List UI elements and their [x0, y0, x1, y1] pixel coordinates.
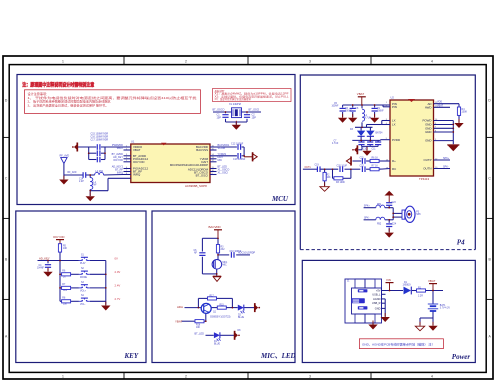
- svg-text:VBAT: VBAT: [117, 147, 124, 150]
- svg-text:10K: 10K: [63, 304, 68, 306]
- svg-text:BACVSS: BACVSS: [196, 148, 208, 152]
- svg-text:PVDD: PVDD: [392, 138, 400, 142]
- svg-text:TP4413: TP4413: [419, 177, 430, 181]
- svg-text:RF_AVD: RF_AVD: [68, 171, 77, 174]
- svg-text:OUT1: OUT1: [305, 167, 312, 169]
- svg-text:C21: C21: [360, 157, 365, 159]
- svg-text:IOCYOD: IOCYOD: [113, 159, 123, 162]
- svg-text:GND: GND: [425, 130, 431, 134]
- svg-text:AWD: AWD: [425, 105, 432, 109]
- svg-text:1: 1: [62, 374, 64, 378]
- svg-text:MIC/PA0/PA3/ADC10/LDRDP: MIC/PA0/PA3/ADC10/LDRDP: [170, 163, 208, 167]
- svg-text:USB_R: USB_R: [372, 301, 381, 305]
- svg-text:YBAT: YBAT: [175, 320, 183, 324]
- svg-text:3: 3: [309, 59, 311, 63]
- svg-text:C12 100NF: C12 100NF: [231, 143, 244, 146]
- svg-text:10K: 10K: [196, 327, 201, 329]
- svg-text:1N5819: 1N5819: [403, 285, 412, 287]
- svg-text:2.7V: 2.7V: [115, 297, 121, 301]
- svg-text:IOCYOD: IOCYOD: [133, 160, 144, 164]
- svg-text:RC: RC: [392, 167, 396, 171]
- svg-text:BLUE: BLUE: [238, 317, 244, 319]
- svg-text:OUTN: OUTN: [423, 167, 431, 171]
- svg-text:Power: Power: [452, 353, 471, 361]
- svg-text:100NF: 100NF: [332, 106, 339, 108]
- svg-text:MIC、LED: MIC、LED: [260, 352, 296, 360]
- svg-text:INRQ: INRQ: [133, 173, 141, 177]
- svg-text:BT_LED: BT_LED: [195, 332, 205, 335]
- svg-text:15P: 15P: [252, 116, 257, 119]
- svg-text:BAT54: BAT54: [376, 131, 384, 134]
- svg-text:BLUE: BLUE: [214, 343, 220, 345]
- svg-text:VOL+: VOL+: [80, 291, 87, 293]
- svg-text:2.2P: 2.2P: [79, 181, 84, 183]
- svg-text:4: 4: [431, 374, 433, 378]
- svg-text:VOL-: VOL-: [80, 304, 86, 306]
- svg-text:LX: LX: [392, 123, 396, 127]
- svg-text:R7 1K: R7 1K: [372, 165, 379, 167]
- svg-text:1K: 1K: [63, 277, 66, 279]
- svg-text:SPK: SPK: [416, 214, 421, 216]
- svg-text:VCOM: VCOM: [218, 147, 226, 150]
- svg-text:GND、AGND在PCB布线时需单点共地（磁珠） 注！: GND、AGND在PCB布线时需单点共地（磁珠） 注！: [362, 341, 435, 346]
- svg-text:104NF: 104NF: [37, 268, 44, 270]
- svg-text:3、 出货前产品需安全日测试，组装会议测试保护 等环节。: 3、 出货前产品需安全日测试，组装会议测试保护 等环节。: [28, 102, 109, 107]
- svg-text:2: 2: [185, 374, 187, 378]
- svg-text:GND: GND: [375, 306, 381, 310]
- svg-text:100NF: 100NF: [377, 110, 384, 112]
- svg-text:FB2: FB2: [377, 224, 382, 226]
- svg-text:X3：温度特性需满足全温范围要求: X3：温度特性需满足全温范围要求: [215, 97, 252, 101]
- svg-text:MIC: MIC: [218, 159, 223, 162]
- svg-text:10K: 10K: [327, 177, 332, 179]
- svg-text:VBAT: VBAT: [133, 148, 141, 152]
- svg-text:KEY: KEY: [124, 352, 139, 360]
- svg-text:4.7UF: 4.7UF: [332, 143, 339, 145]
- svg-text:VDD: VDD: [437, 101, 442, 104]
- svg-text:0V: 0V: [115, 256, 119, 260]
- svg-text:2: 2: [185, 59, 187, 63]
- svg-text:ADA: ADA: [177, 305, 183, 309]
- svg-text:BACVDD: BACVDD: [209, 225, 221, 229]
- svg-text:C17 100NF/X5R: C17 100NF/X5R: [91, 139, 109, 142]
- svg-text:U2: U2: [391, 96, 395, 100]
- svg-text:BT_OSCI: BT_OSCI: [196, 174, 209, 178]
- svg-text:4: 4: [431, 59, 433, 63]
- svg-text:SPK+: SPK+: [443, 157, 450, 160]
- svg-text:P4: P4: [457, 238, 465, 246]
- svg-text:AGND: AGND: [373, 297, 381, 301]
- svg-text:R3 100K: R3 100K: [336, 182, 345, 184]
- svg-text:RF_AVD: RF_AVD: [60, 154, 70, 157]
- svg-text:U1: U1: [131, 140, 135, 144]
- svg-text:L2 2N2: L2 2N2: [96, 171, 104, 173]
- svg-text:100NF: 100NF: [345, 110, 352, 112]
- svg-text:OUTP: OUTP: [423, 158, 431, 162]
- svg-text:FB1: FB1: [377, 204, 382, 206]
- svg-text:2.0V: 2.0V: [115, 270, 121, 274]
- svg-text:SPK-: SPK-: [364, 218, 370, 220]
- svg-text:3: 3: [309, 374, 311, 378]
- svg-text:X1 24MHZ: X1 24MHZ: [229, 103, 241, 106]
- svg-text:R15: R15: [220, 305, 225, 307]
- svg-text:C10: C10: [363, 149, 368, 151]
- svg-text:C24: C24: [392, 223, 397, 225]
- svg-text:C13 100NF: C13 100NF: [233, 158, 246, 161]
- svg-text:BT_OSCI: BT_OSCI: [249, 109, 260, 112]
- svg-text:ADC10/LDRDP: ADC10/LDRDP: [238, 252, 256, 255]
- svg-text:MODE: MODE: [80, 277, 87, 279]
- svg-text:PIN: PIN: [392, 105, 397, 109]
- svg-text:C22: C22: [360, 165, 365, 167]
- svg-text:3K3: 3K3: [63, 290, 68, 292]
- svg-text:MCU: MCU: [271, 195, 289, 203]
- svg-text:R17: R17: [210, 295, 215, 297]
- svg-text:1: 1: [62, 59, 64, 63]
- svg-text:R+: R+: [392, 159, 396, 163]
- svg-text:AC6966B_SOP8: AC6966B_SOP8: [185, 184, 207, 188]
- svg-text:+5V: +5V: [376, 289, 381, 293]
- svg-text:2.4V: 2.4V: [115, 284, 121, 288]
- svg-text:VBAT: VBAT: [428, 279, 436, 283]
- svg-text:PLAY: PLAY: [80, 262, 86, 265]
- svg-text:10K: 10K: [63, 248, 68, 250]
- svg-text:GND: GND: [425, 139, 431, 143]
- svg-text:R6 1K: R6 1K: [372, 157, 379, 159]
- svg-text:VIN: VIN: [386, 278, 391, 282]
- svg-text:MIC: MIC: [223, 265, 228, 267]
- svg-text:100K: 100K: [462, 111, 468, 114]
- svg-text:C23: C23: [392, 202, 397, 204]
- svg-text:X1_OSCI: X1_OSCI: [218, 172, 229, 175]
- svg-text:IOCYOD: IOCYOD: [53, 235, 64, 239]
- svg-text:4.7UH: 4.7UH: [365, 118, 372, 120]
- svg-text:注：原理图中注释说明设计时需特别注意: 注：原理图中注释说明设计时需特别注意: [22, 80, 94, 88]
- svg-text:SPK-: SPK-: [443, 166, 449, 169]
- svg-text:C20 10UF: C20 10UF: [337, 166, 348, 168]
- svg-text:2.2R: 2.2R: [418, 296, 423, 298]
- svg-text:2K2: 2K2: [221, 249, 226, 251]
- svg-text:C19: C19: [315, 164, 320, 166]
- svg-text:BAT1: BAT1: [440, 304, 446, 307]
- svg-text:15P: 15P: [217, 116, 222, 119]
- svg-text:SS8050/Y1(SOT23): SS8050/Y1(SOT23): [210, 316, 231, 318]
- svg-text:BT_OSCO: BT_OSCO: [213, 109, 225, 112]
- svg-text:3.7V-4.2V: 3.7V-4.2V: [440, 308, 451, 310]
- svg-text:VBAT: VBAT: [357, 92, 365, 96]
- svg-text:VBAT: VBAT: [437, 104, 444, 107]
- svg-text:USB_L: USB_L: [372, 292, 381, 296]
- svg-text:SPK+: SPK+: [364, 205, 371, 207]
